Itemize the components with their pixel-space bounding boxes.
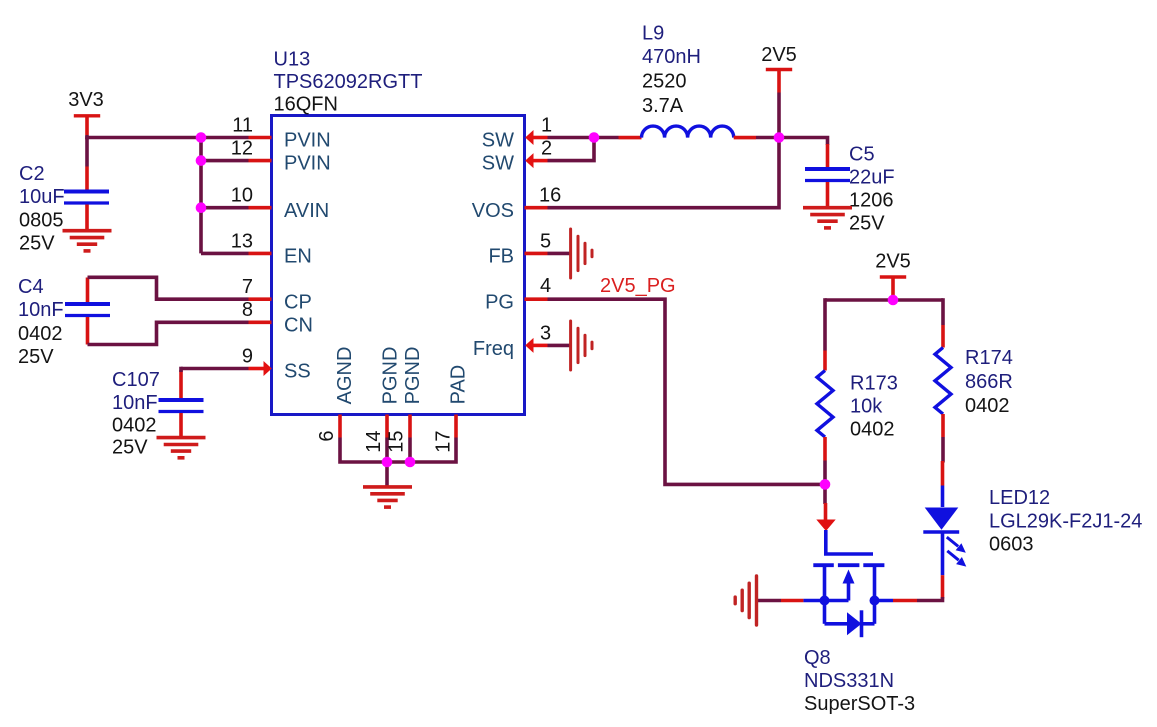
svg-text:C5: C5 <box>849 144 875 166</box>
svg-text:14: 14 <box>363 431 385 453</box>
svg-text:PG: PG <box>485 291 514 313</box>
svg-text:PGND: PGND <box>380 347 402 405</box>
svg-text:9: 9 <box>242 345 253 367</box>
svg-text:25V: 25V <box>112 437 148 459</box>
svg-text:5: 5 <box>540 230 551 252</box>
resistor R173 <box>817 351 898 461</box>
ground below C5 <box>803 208 852 228</box>
capacitor C2 <box>19 163 109 255</box>
svg-text:SW: SW <box>482 130 514 152</box>
wire to pin 12 <box>201 159 249 163</box>
pin 17 PAD <box>433 365 470 453</box>
svg-text:0402: 0402 <box>18 323 63 345</box>
svg-text:7: 7 <box>242 276 253 298</box>
ground below C107 <box>157 438 206 458</box>
node junction PGND bus B <box>405 457 416 468</box>
wire bus to R173 <box>823 298 827 350</box>
transistor Q8 <box>781 503 917 715</box>
wire C4 bottom to pin 8 CN <box>88 322 249 344</box>
svg-text:0805: 0805 <box>19 210 64 232</box>
resistor R174 <box>935 325 1013 437</box>
wire PGND pin14 to bus <box>385 438 389 463</box>
wire R173 to PG node <box>823 461 827 485</box>
svg-text:R174: R174 <box>965 347 1013 369</box>
wire Freq to ground <box>548 344 572 348</box>
svg-text:AGND: AGND <box>334 347 356 405</box>
svg-text:22uF: 22uF <box>849 167 895 189</box>
wire resistor top bus <box>825 298 943 302</box>
power symbol 2V5 (right) <box>875 251 911 301</box>
svg-text:FB: FB <box>488 246 514 268</box>
pin 1 SW input arrow <box>482 114 552 151</box>
pin 7 CP <box>242 276 312 313</box>
svg-text:EN: EN <box>284 246 312 268</box>
svg-text:16: 16 <box>539 185 561 207</box>
svg-text:12: 12 <box>231 138 253 160</box>
ground below C2 <box>63 231 112 251</box>
svg-text:10: 10 <box>231 185 253 207</box>
svg-text:3V3: 3V3 <box>68 89 104 111</box>
svg-text:4: 4 <box>540 275 551 297</box>
wire PVIN bus vertical <box>199 138 203 254</box>
node junction AVIN pin10 <box>196 202 207 213</box>
wire to pin 13 EN <box>201 252 249 256</box>
svg-text:11: 11 <box>232 114 253 136</box>
svg-text:LED12: LED12 <box>989 487 1050 509</box>
pin 6 AGND <box>316 347 356 442</box>
wire 2V5 down to output node <box>777 93 781 138</box>
svg-text:866R: 866R <box>965 371 1013 393</box>
wire output node to C5 <box>779 138 828 146</box>
wire C4 top to pin 7 CP <box>88 277 249 299</box>
pin 10 AVIN <box>231 185 329 222</box>
power symbol 3V3 <box>68 89 104 135</box>
capacitor C4 <box>18 276 110 368</box>
inductor L9 <box>619 23 757 138</box>
capacitor C5 <box>805 144 895 235</box>
pin 9 SS input arrow <box>242 345 311 382</box>
pin 14 PGND <box>363 347 402 453</box>
svg-text:6: 6 <box>316 431 338 442</box>
wire L9 to output node <box>756 136 779 140</box>
svg-text:0402: 0402 <box>850 419 895 441</box>
svg-text:2: 2 <box>541 138 552 160</box>
svg-text:25V: 25V <box>19 233 55 255</box>
svg-text:PGND: PGND <box>402 347 424 405</box>
wire VOS to output node <box>548 138 780 208</box>
svg-text:2V5: 2V5 <box>761 44 797 66</box>
pin 2 SW input arrow <box>482 138 552 175</box>
ground at Q8 source (sideways left) <box>735 576 756 625</box>
wire 3V3 vertical to node <box>85 135 89 139</box>
svg-text:SuperSOT-3: SuperSOT-3 <box>804 693 915 715</box>
wire SW pin1 to L9 <box>548 136 619 140</box>
svg-text:2520: 2520 <box>642 71 687 93</box>
pin 3 Freq input arrow <box>473 322 551 360</box>
wire to pin 10 <box>201 206 249 210</box>
wire 3V3 down to C2 <box>85 138 89 167</box>
node junction 2V5 resistor bus <box>888 295 899 306</box>
svg-text:17: 17 <box>433 431 455 453</box>
svg-text:13: 13 <box>231 230 253 252</box>
pin 11 PVIN <box>232 114 330 151</box>
power symbol 2V5 (top) <box>761 44 797 93</box>
wire PG node down to Q8 gate <box>823 484 827 504</box>
svg-text:3.7A: 3.7A <box>642 95 684 117</box>
capacitor C107 <box>112 369 204 459</box>
wire bus to R174 <box>941 298 945 325</box>
wire C107 to pin 9 SS <box>181 367 249 372</box>
node junction 2V5 output <box>774 132 785 143</box>
node junction SW <box>589 132 600 143</box>
svg-text:10nF: 10nF <box>112 392 158 414</box>
ground at FB (sideways) <box>571 229 592 278</box>
svg-text:Q8: Q8 <box>804 647 831 669</box>
wire bus down to ground <box>385 462 389 486</box>
svg-text:PVIN: PVIN <box>284 130 331 152</box>
svg-text:CP: CP <box>284 291 312 313</box>
wire PGND pin15 to bus <box>408 438 412 463</box>
node junction PVIN pin12 <box>196 155 207 166</box>
svg-text:10uF: 10uF <box>19 186 65 208</box>
svg-text:2V5_PG: 2V5_PG <box>600 275 676 297</box>
wire R174 to LED <box>941 437 945 463</box>
wire SW pin2 up to node <box>548 138 595 161</box>
ground below IC <box>363 487 412 507</box>
svg-text:25V: 25V <box>849 213 885 235</box>
ground at Freq (sideways) <box>571 321 592 370</box>
svg-text:U13: U13 <box>274 49 311 71</box>
svg-text:TPS62092RGTT: TPS62092RGTT <box>274 71 423 93</box>
pin 5 FB <box>488 230 551 267</box>
svg-text:AVIN: AVIN <box>284 200 329 222</box>
svg-text:R173: R173 <box>850 373 898 395</box>
svg-text:15: 15 <box>386 431 408 453</box>
svg-text:SW: SW <box>482 153 514 175</box>
node junction PVIN pin11 <box>196 132 207 143</box>
svg-text:10k: 10k <box>850 396 883 418</box>
svg-text:L9: L9 <box>642 23 664 45</box>
svg-text:0603: 0603 <box>989 534 1034 556</box>
LED LED12 <box>923 461 1142 599</box>
svg-text:0402: 0402 <box>965 395 1010 417</box>
svg-text:PVIN: PVIN <box>284 153 331 175</box>
svg-text:C4: C4 <box>18 276 44 298</box>
svg-text:2V5: 2V5 <box>875 251 911 273</box>
svg-text:1206: 1206 <box>849 190 894 212</box>
pin 4 PG <box>485 275 551 313</box>
node junction PG gate <box>820 479 831 490</box>
svg-text:8: 8 <box>242 299 253 321</box>
wire LED to Q8 drain <box>917 597 943 601</box>
svg-text:25V: 25V <box>18 346 54 368</box>
svg-text:CN: CN <box>284 314 313 336</box>
svg-text:1: 1 <box>541 114 552 136</box>
svg-text:C2: C2 <box>19 163 45 185</box>
pin 8 CN <box>242 299 313 336</box>
svg-text:SS: SS <box>284 361 311 383</box>
pin 12 PVIN <box>231 138 331 175</box>
pin 13 EN <box>231 230 312 267</box>
svg-text:C107: C107 <box>112 369 160 391</box>
pin 16 VOS <box>472 185 562 222</box>
net label 2V5_PG <box>600 275 676 297</box>
svg-text:470nH: 470nH <box>642 46 701 68</box>
svg-text:0402: 0402 <box>112 415 157 437</box>
wire PG net <box>548 299 826 484</box>
svg-text:16QFN: 16QFN <box>274 94 338 116</box>
svg-text:Freq: Freq <box>473 338 514 360</box>
svg-text:PAD: PAD <box>448 365 470 405</box>
svg-text:LGL29K-F2J1-24: LGL29K-F2J1-24 <box>989 511 1142 533</box>
pin 15 PGND <box>386 347 425 453</box>
wire net 3V3 horizontal to PVIN <box>85 136 248 140</box>
svg-text:NDS331N: NDS331N <box>804 670 894 692</box>
svg-text:3: 3 <box>540 322 551 344</box>
svg-text:10nF: 10nF <box>18 299 64 321</box>
node junction PGND bus A <box>382 457 393 468</box>
svg-text:VOS: VOS <box>472 200 514 222</box>
IC U13 TPS62092RGTT body <box>272 49 525 415</box>
wire FB to ground <box>548 252 572 256</box>
wire Q8 source to ground <box>757 599 781 603</box>
wire AGND-PAD bottom bus <box>340 438 456 463</box>
